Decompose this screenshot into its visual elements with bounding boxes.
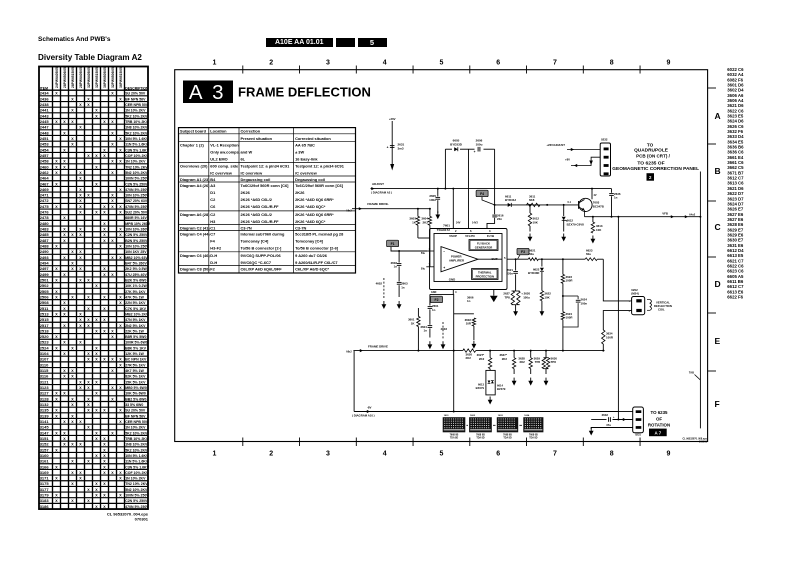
svg-text:7668 0B: 7668 0B	[503, 434, 512, 436]
svg-text:TO 6235 OF: TO 6235 OF	[637, 161, 664, 166]
connector 0231 rotation	[633, 407, 644, 433]
resistor 3623 100R	[562, 259, 564, 274]
svg-text:2K26 *A6D 6QC*: 2K26 *A6D 6QC*	[295, 219, 326, 224]
svg-text:( DIAGRAM A10 ): ( DIAGRAM A10 )	[352, 414, 375, 418]
svg-text:1n: 1n	[394, 265, 398, 269]
wire out line	[507, 258, 528, 260]
svg-text:1603: 1603	[498, 415, 504, 417]
svg-text:60u: 60u	[529, 252, 534, 256]
svg-text:BZX79-C6V8: BZX79-C6V8	[567, 222, 585, 226]
svg-text:Corrected situation: Corrected situation	[295, 136, 331, 141]
svg-text:± 3W: ± 3W	[295, 149, 304, 154]
wire riser pin6	[468, 149, 470, 228]
svg-text:C3-7N: C3-7N	[241, 226, 252, 231]
capacitor 2616 22n to flyb pin	[494, 205, 496, 214]
wire -8V bus	[354, 411, 618, 413]
svg-text:3m3: 3m3	[398, 147, 404, 151]
svg-text:9V/C6Q SUPP-POL/06: 9V/C6Q SUPP-POL/06	[241, 253, 282, 258]
wire gnd trunk down	[452, 294, 454, 411]
svg-text:Degaussing coil: Degaussing coil	[295, 177, 325, 182]
svg-text:2K2: 2K2	[479, 357, 485, 361]
svg-text:Location: Location	[210, 129, 227, 134]
svg-text:14V2: 14V2	[472, 222, 478, 225]
svg-text:Chapter 1 (2): Chapter 1 (2)	[180, 142, 204, 147]
svg-text:8: 8	[610, 60, 614, 67]
svg-text:Internal sub7060 during: Internal sub7060 during	[241, 232, 286, 237]
row ruler ticks and letters right	[708, 87, 716, 89]
svg-text:6614: 6614	[497, 383, 503, 387]
svg-text:+: +	[443, 266, 445, 270]
svg-text:2K2: 2K2	[422, 221, 428, 225]
svg-text:-8V: -8V	[367, 406, 372, 410]
svg-text:A 3: A 3	[189, 81, 226, 104]
resistor 3622 10K	[540, 291, 543, 301]
svg-text:7: 7	[553, 451, 557, 458]
svg-text:To6C/29of 560R conn [C6]: To6C/29of 560R conn [C6]	[241, 183, 290, 188]
svg-text:D1: D1	[210, 190, 216, 195]
svg-text:VSUP: VSUP	[449, 234, 457, 238]
wire 0231 pin3	[591, 428, 633, 430]
header badge page 5	[358, 38, 387, 48]
wire deflection pin2	[603, 311, 631, 330]
svg-text:TDA 8D: TDA 8D	[476, 436, 485, 439]
svg-text:2: 2	[629, 311, 631, 313]
svg-text:D-H: D-H	[210, 253, 217, 258]
wire base line	[495, 204, 579, 206]
badge A2 small	[647, 173, 655, 181]
svg-text:C1: C1	[210, 226, 216, 231]
wire 0231 pin1 to -8V	[618, 411, 632, 413]
resistor 3603 1K	[417, 209, 419, 217]
svg-text:Only aw.comps.: Only aw.comps.	[210, 149, 239, 154]
connector block 1602	[469, 417, 492, 432]
wire to deflection connector pin1	[603, 259, 631, 301]
header badge blank	[336, 38, 355, 48]
svg-text:3: 3	[326, 60, 330, 67]
wire riser VSUP	[444, 149, 446, 188]
connector block 1604	[523, 417, 543, 432]
varistor 4602 dashed	[383, 278, 385, 298]
svg-text:C6: C6	[210, 204, 216, 209]
svg-text:Diagram A6 (28): Diagram A6 (28)	[180, 212, 210, 217]
svg-text:FLYB: FLYB	[487, 234, 494, 238]
svg-text:OF: OF	[656, 416, 662, 421]
svg-text:0232: 0232	[601, 138, 608, 142]
svg-text:6622 F6: 6622 F6	[727, 294, 743, 299]
connector 0232 quadrupole	[600, 143, 610, 176]
svg-text:+: +	[474, 150, 476, 154]
svg-text:TDA 8D: TDA 8D	[529, 436, 538, 439]
svg-text:50u: 50u	[421, 252, 426, 255]
svg-text:24V: 24V	[456, 222, 461, 225]
wire geomagnetic down	[699, 172, 701, 429]
svg-text:A 7: A 7	[655, 431, 662, 436]
thermal protection block	[472, 269, 498, 280]
inductor 6623 60u	[585, 258, 597, 261]
resistor 3611 6K8	[527, 203, 541, 206]
svg-text:ADJUST: ADJUST	[372, 182, 384, 186]
svg-text:D-H: D-H	[210, 260, 217, 265]
svg-text:50u: 50u	[421, 268, 426, 271]
svg-text:BYD33D: BYD33D	[450, 142, 463, 146]
svg-text:2K26 *A6D C6L/R-FF: 2K26 *A6D C6L/R-FF	[241, 204, 280, 209]
svg-text:Present situation: Present situation	[241, 136, 273, 141]
resistor 3627 2K2 with zeners 6613 6614	[489, 350, 491, 352]
svg-text:1n: 1n	[432, 308, 436, 312]
capacitor 2636 1n	[611, 189, 613, 193]
zener 6614 BZX79	[491, 381, 494, 384]
svg-text:FRAME DEFLECTION: FRAME DEFLECTION	[238, 85, 371, 100]
varistor 4603 dashed	[442, 322, 444, 340]
svg-text:Diagram A4 (26): Diagram A4 (26)	[180, 183, 210, 188]
section heading	[38, 53, 142, 62]
svg-text:1: 1	[629, 301, 631, 303]
svg-text:60u: 60u	[586, 252, 591, 256]
svg-text:16 Easy-link: 16 Easy-link	[295, 156, 318, 161]
svg-text:F1: F1	[391, 242, 395, 246]
svg-text:260501: 260501	[699, 440, 708, 443]
pin 1 wire and F1	[426, 250, 434, 252]
capacitor 2602 1n	[398, 251, 400, 263]
capacitor 2605 100n	[437, 189, 439, 197]
flyback generator block	[469, 240, 498, 251]
svg-text:4: 4	[383, 60, 387, 67]
svg-text:9V/C6QC *C-6C7: 9V/C6QC *C-6C7	[241, 260, 272, 265]
svg-text:Overviews (20): Overviews (20)	[180, 163, 208, 168]
svg-text:10R: 10R	[466, 322, 472, 326]
svg-text:2K26 *A6D C6L/2: 2K26 *A6D C6L/2	[241, 212, 273, 217]
svg-text:IC overview: IC overview	[210, 170, 233, 175]
diode 6611 BYD33J	[508, 203, 512, 207]
svg-text:220n: 220n	[506, 272, 513, 276]
dashes between blocks	[466, 424, 468, 426]
pin 7 wire	[426, 266, 434, 268]
svg-text:D: D	[715, 279, 721, 289]
zener 6613 BZX79	[488, 381, 491, 384]
resistor 3612 10K	[529, 205, 531, 213]
resistor 3602 10R	[472, 318, 475, 326]
wire emitter line VFB	[584, 210, 586, 216]
svg-text:10K: 10K	[533, 220, 539, 224]
resistor 3629 3630 pair TP8	[545, 350, 547, 352]
capacitor 2632 47u	[613, 419, 633, 421]
resistor 3628 2K2	[530, 350, 532, 352]
svg-text:1K: 1K	[412, 221, 417, 225]
svg-text:H3-F2: H3-F2	[210, 246, 222, 251]
svg-text:TP8: TP8	[535, 360, 541, 364]
svg-text:47u: 47u	[606, 423, 611, 427]
svg-text:5: 5	[439, 60, 443, 67]
capacitor 2604 1n	[428, 325, 433, 327]
svg-text:B4: B4	[210, 177, 216, 182]
header badge A10E AA 01.01	[266, 38, 334, 48]
svg-text:2: 2	[269, 451, 273, 458]
zener 6612 BZX79-C6V8	[563, 205, 565, 216]
column ruler ticks	[242, 66, 244, 74]
svg-text:2K26 *A6D 6QC*: 2K26 *A6D 6QC*	[295, 204, 326, 209]
svg-text:Tomconay [C4]: Tomconay [C4]	[295, 239, 324, 244]
wire collector riser	[591, 189, 593, 200]
svg-text:AA 65 7BC: AA 65 7BC	[295, 142, 315, 147]
svg-text:TDA 8D: TDA 8D	[450, 436, 459, 439]
svg-text:FRAME DRIVE.: FRAME DRIVE.	[367, 202, 389, 206]
svg-text:VL-1 Reception: VL-1 Reception	[210, 142, 239, 147]
svg-text:TAB: TAB	[689, 371, 694, 375]
svg-text:1K: 1K	[411, 321, 416, 325]
vertical deflection coil symbol	[650, 300, 652, 311]
svg-text:GENERATOR: GENERATOR	[475, 245, 493, 249]
svg-text:4602: 4602	[376, 282, 383, 286]
gray badge F3	[517, 248, 529, 255]
svg-text:22n: 22n	[497, 217, 502, 221]
wire riser pin2	[452, 189, 454, 229]
svg-text:100R: 100R	[566, 279, 574, 283]
diode 6622 BYD33D	[541, 259, 543, 266]
svg-text:To6C/29of 560R conn [C6]: To6C/29of 560R conn [C6]	[295, 183, 344, 188]
svg-text:6613: 6613	[478, 382, 484, 386]
svg-text:600 comp. side: 600 comp. side	[210, 163, 239, 168]
svg-text:Testpoint 12: a pin34 6C91: Testpoint 12: a pin34 6C91	[241, 163, 291, 168]
svg-text:100n: 100n	[581, 301, 588, 305]
svg-text:0231: 0231	[635, 432, 641, 436]
resistor 3613 10K	[592, 217, 594, 222]
pin 4 gnd wire and F2	[452, 290, 454, 295]
grid reference codes column	[727, 67, 744, 299]
diode 6605 BYD33D	[454, 147, 458, 151]
svg-text:F2: F2	[435, 298, 439, 302]
svg-text:Diagram C4 (44): Diagram C4 (44)	[180, 232, 210, 237]
svg-text:2K2: 2K2	[466, 356, 472, 360]
wire top rail	[445, 148, 452, 150]
svg-text:Diagram C2 (41): Diagram C2 (41)	[180, 226, 210, 231]
svg-text:7: 7	[553, 60, 557, 67]
resistor 3604 2K2	[429, 209, 431, 217]
svg-text:2K26 *A6D C6L/R-FF: 2K26 *A6D C6L/R-FF	[241, 219, 280, 224]
svg-text:AMPLIFIER: AMPLIFIER	[449, 258, 464, 262]
wire riser FLYB	[494, 149, 496, 205]
wire left drop to -8V	[353, 351, 355, 412]
diversity table outer border	[39, 67, 148, 510]
svg-text:6: 6	[496, 60, 500, 67]
svg-text:2K26 *A6D 6Q6 6RR*: 2K26 *A6D 6Q6 6RR*	[295, 197, 334, 202]
svg-text:1604: 1604	[524, 414, 530, 417]
svg-text:IC overview: IC overview	[241, 170, 264, 175]
page header text	[38, 36, 110, 43]
svg-text:−: −	[443, 249, 445, 253]
svg-text:Diagram C6 (46): Diagram C6 (46)	[180, 253, 210, 258]
svg-text:GND: GND	[431, 291, 437, 294]
resistor 3637 2K2	[513, 350, 515, 352]
svg-text:5: 5	[504, 256, 506, 260]
svg-text:TDA8172: TDA8172	[437, 228, 451, 232]
svg-text:GND: GND	[449, 277, 455, 281]
capacitor 2606 100u	[477, 147, 479, 152]
svg-text:F: F	[715, 399, 720, 409]
svg-text:VFLPO: VFLPO	[465, 234, 475, 238]
capacitor 2624 100n	[563, 295, 578, 297]
svg-text:2K2: 2K2	[502, 357, 508, 361]
svg-text:FRAME DRIVE: FRAME DRIVE	[368, 344, 388, 348]
svg-text:9: 9	[666, 60, 670, 67]
svg-text:A8x2: A8x2	[346, 210, 352, 213]
svg-text:+: +	[387, 146, 389, 150]
svg-text:/C overview: /C overview	[295, 170, 318, 175]
svg-text:BYD33D: BYD33D	[528, 271, 539, 275]
connector 0202 vertical deflection	[632, 297, 645, 315]
svg-text:BZX79: BZX79	[476, 386, 485, 390]
svg-text:4V: 4V	[594, 194, 597, 197]
gray badge F4	[476, 190, 488, 197]
svg-text:VFB: VFB	[662, 212, 668, 216]
svg-text:C7: C7	[210, 232, 215, 237]
IC 7601 TDA8172 outer box	[430, 229, 508, 290]
svg-text:F2: F2	[210, 267, 215, 272]
svg-text:+: +	[613, 415, 615, 419]
svg-text:2K26 *A6D C6L/2: 2K26 *A6D C6L/2	[241, 197, 273, 202]
svg-text:100n: 100n	[429, 198, 436, 202]
svg-text:9: 9	[666, 451, 670, 458]
diversity table header	[39, 67, 149, 510]
diversity table rows	[39, 91, 151, 509]
wire resistor join to pin7	[418, 237, 430, 239]
svg-text:5cc318/5 PL mcmad pg 28: 5cc318/5 PL mcmad pg 28	[295, 232, 344, 237]
resistor 3624 100R	[561, 312, 564, 320]
svg-text:Subject board: Subject board	[180, 129, 207, 134]
svg-text:B: B	[715, 166, 721, 176]
svg-text:1n: 1n	[424, 329, 428, 333]
svg-text:4: 4	[455, 290, 457, 294]
svg-text:C6L/XP A6D 6Q6L/9FF: C6L/XP A6D 6Q6L/9FF	[241, 267, 283, 272]
svg-text:QUADRUPOLE: QUADRUPOLE	[634, 148, 668, 153]
svg-text:BZX79: BZX79	[497, 387, 506, 391]
resistor 3601 1K	[417, 308, 419, 316]
svg-text:5: 5	[439, 451, 443, 458]
svg-text:+8V: +8V	[565, 158, 570, 162]
svg-text:C: C	[715, 222, 721, 232]
svg-text:2K26 *A6D 6Q6 6RR*: 2K26 *A6D 6Q6 6RR*	[295, 212, 334, 217]
svg-text:A8x2: A8x2	[346, 351, 352, 354]
svg-text:10K: 10K	[596, 228, 602, 232]
transistor 7603 BC547B	[579, 198, 592, 211]
svg-text:H3: H3	[210, 219, 216, 224]
svg-text:2: 2	[269, 60, 273, 67]
svg-text:GEOMAGNETIC CORRECTION PANEL: GEOMAGNETIC CORRECTION PANEL	[612, 166, 699, 171]
svg-text:C2: C2	[210, 197, 216, 202]
svg-text:Testpoint 12: a pin34 6C91: Testpoint 12: a pin34 6C91	[295, 163, 345, 168]
svg-text:6L: 6L	[241, 156, 246, 161]
svg-text:A3: A3	[210, 183, 216, 188]
inductor 6621 60u	[528, 258, 538, 261]
capacitor 2621 220n	[515, 259, 517, 270]
svg-text:ROTATION: ROTATION	[648, 423, 670, 428]
correction table	[179, 128, 356, 273]
connector block 1603	[497, 417, 518, 432]
svg-text:A: A	[715, 111, 721, 121]
svg-text:TP8: TP8	[504, 295, 510, 299]
svg-text:1601: 1601	[444, 415, 450, 417]
svg-text:To/56 B connector [2-]: To/56 B connector [2-]	[241, 246, 282, 251]
svg-text:1n: 1n	[614, 196, 618, 200]
svg-text:100u: 100u	[476, 142, 483, 146]
wire amp to out	[478, 258, 502, 260]
connector block 1601	[443, 417, 466, 432]
svg-text:C6L/XP A6/D 6QC*: C6L/XP A6/D 6QC*	[295, 267, 329, 272]
resistor 3620 pair	[512, 290, 520, 292]
wire right trunk down	[699, 216, 701, 218]
svg-text:2K2: 2K2	[519, 360, 525, 364]
svg-text:1602: 1602	[470, 415, 476, 417]
svg-text:F4: F4	[210, 239, 215, 244]
capacitor 2631	[390, 145, 395, 147]
svg-text:1: 1	[212, 451, 216, 458]
svg-text:1: 1	[212, 60, 216, 67]
ground hot under IC	[493, 290, 495, 296]
resistor 3634 100R	[602, 330, 605, 344]
wire trunk 2618	[617, 217, 619, 420]
column ruler numbers top	[212, 60, 670, 458]
svg-text:+26V/ADJUST: +26V/ADJUST	[546, 143, 565, 147]
svg-text:3: 3	[326, 451, 330, 458]
svg-text:To/56 B connector [2-6]: To/56 B connector [2-6]	[295, 246, 339, 251]
capacitor 2601 1n	[429, 294, 431, 305]
svg-text:E: E	[715, 336, 721, 346]
IC 7601 inner box	[434, 234, 502, 282]
svg-text:C2: C2	[210, 212, 216, 217]
svg-text:4603: 4603	[441, 327, 448, 331]
svg-text:7668 0B: 7668 0B	[476, 434, 485, 436]
svg-text:10K: 10K	[544, 295, 550, 299]
svg-text:TP8: TP8	[551, 360, 557, 364]
svg-text:6: 6	[470, 229, 472, 233]
svg-text:C3-7N: C3-7N	[295, 226, 306, 231]
svg-text:BYD33J: BYD33J	[505, 198, 516, 202]
svg-text:Tomconay [C4]: Tomconay [C4]	[241, 239, 270, 244]
svg-text:6K8: 6K8	[529, 198, 535, 202]
op-amp power amplifier triangle	[441, 247, 478, 272]
svg-text:1n: 1n	[401, 285, 405, 289]
svg-text:Diagram A1 (23): Diagram A1 (23)	[180, 177, 210, 182]
wire ADJUST line	[371, 188, 612, 190]
svg-text:(M24): (M24)	[631, 292, 639, 296]
svg-text:7668 0B: 7668 0B	[529, 434, 538, 436]
svg-text:100R: 100R	[566, 316, 574, 320]
svg-text:( DIAGRAM A2 ): ( DIAGRAM A2 )	[371, 191, 392, 195]
svg-text:UL2 EMO: UL2 EMO	[210, 156, 227, 161]
svg-text:Correction: Correction	[241, 129, 261, 134]
svg-text:2K26: 2K26	[241, 190, 251, 195]
wire branch to 3602	[454, 313, 474, 315]
svg-text:Degaussing coil: Degaussing coil	[241, 177, 271, 182]
svg-text:1n: 1n	[467, 299, 471, 303]
schematic frame border	[175, 70, 708, 442]
svg-text:2632: 2632	[602, 413, 609, 417]
svg-text:3: 3	[489, 229, 491, 233]
svg-text:COIL: COIL	[658, 308, 665, 312]
title badge A3	[183, 81, 233, 104]
svg-text:+26V: +26V	[389, 117, 396, 121]
svg-text:6: 6	[496, 451, 500, 458]
resistor 3626 2K2	[463, 349, 476, 352]
capacitor 2603 1n	[397, 281, 402, 283]
svg-text:Diagram C8 (50): Diagram C8 (50)	[180, 267, 210, 272]
svg-text:9 A260 du7 C6/26: 9 A260 du7 C6/26	[295, 253, 328, 258]
svg-text:F4: F4	[480, 192, 484, 196]
svg-text:7668 0B: 7668 0B	[450, 434, 459, 436]
svg-text:PCB (ON CRT) /: PCB (ON CRT) /	[636, 154, 671, 159]
svg-text:100u: 100u	[523, 295, 530, 299]
svg-text:BC547B: BC547B	[593, 204, 604, 208]
svg-text:F3: F3	[521, 250, 525, 254]
